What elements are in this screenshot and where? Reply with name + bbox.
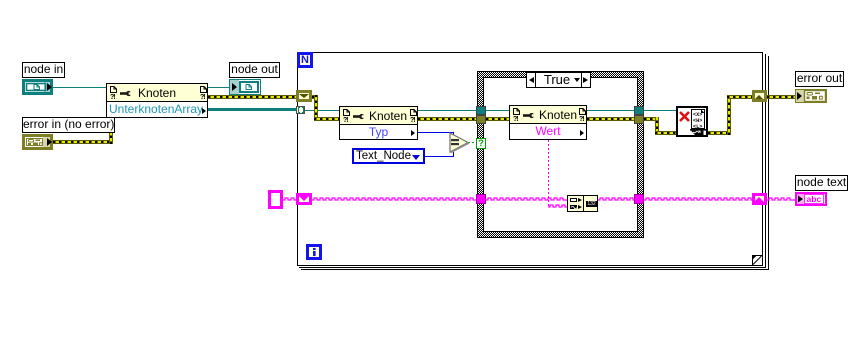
svg-text:abc: abc (807, 194, 822, 204)
